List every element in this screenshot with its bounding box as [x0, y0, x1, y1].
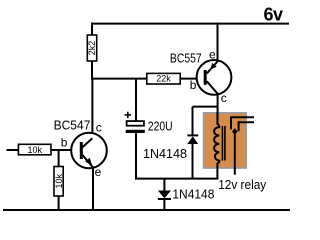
svg-text:10k: 10k [27, 145, 42, 155]
svg-text:12v relay: 12v relay [218, 177, 266, 192]
diode D1 flyback [187, 107, 198, 180]
svg-text:b: b [190, 78, 197, 92]
wire top 6v rail [91, 23, 289, 25]
wire node A horizontal [91, 78, 148, 80]
svg-text:10k: 10k [54, 173, 64, 188]
wire BC547 collector lead [91, 79, 93, 139]
svg-text:6v: 6v [264, 4, 284, 24]
diode D2 series [158, 179, 171, 211]
svg-text:1N4148: 1N4148 [172, 187, 214, 202]
wire 2k2 top lead [91, 23, 93, 36]
wire R4 top lead [58, 150, 60, 167]
wire bottom 0v rail [3, 209, 290, 211]
wire capacitor top lead [135, 79, 137, 122]
svg-text:2k2: 2k2 [87, 41, 97, 56]
resistor R3 body [18, 144, 51, 155]
resistor R4 body [54, 167, 63, 197]
transistor Q1 BC547 [71, 133, 107, 169]
wire capacitor bottom lead [135, 133, 137, 179]
svg-text:220U: 220U [148, 118, 173, 133]
capacitor C1 [125, 112, 145, 133]
wire R3 to BC547 base [51, 149, 81, 151]
wire input left [7, 149, 19, 151]
resistor R2 body [147, 73, 180, 84]
svg-text:1N4148: 1N4148 [143, 146, 187, 161]
relay core [222, 126, 225, 161]
svg-text:22k: 22k [156, 74, 171, 84]
svg-text:c: c [96, 120, 102, 134]
relay armature [232, 128, 238, 174]
wire BC557 collector to coil [217, 94, 219, 124]
wire 22k to BC557 base [180, 78, 205, 80]
relay contact B [239, 122, 254, 131]
wire R4 bottom lead [58, 196, 60, 210]
svg-text:c: c [221, 91, 227, 105]
wire 2k2 bottom lead [91, 61, 93, 79]
svg-text:BC547: BC547 [54, 119, 91, 133]
relay coil [214, 112, 219, 179]
resistor R1 body [87, 35, 96, 61]
svg-text:b: b [61, 135, 68, 149]
wire BC557 emitter to rail [217, 23, 219, 62]
relay K1 body [204, 113, 247, 168]
transistor Q2 BC557 [197, 60, 232, 95]
relay contact A [231, 117, 254, 129]
svg-text:e: e [95, 165, 102, 179]
svg-text:BC557: BC557 [170, 52, 202, 66]
wire D1 cathode to collector node [193, 106, 219, 108]
svg-text:e: e [209, 47, 216, 61]
wire BC547 emitter to rail [92, 167, 94, 210]
wire bottom node horizontal [135, 178, 218, 180]
